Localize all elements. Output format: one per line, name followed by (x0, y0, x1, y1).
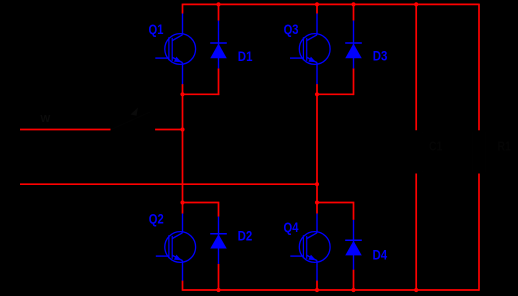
wire Q4 emitter stub (316, 281, 318, 291)
wire D3 bottom stub (353, 68, 355, 95)
transistor Q3 (290, 14, 330, 85)
wire right vertical 2 lower (478, 174, 480, 291)
junction dot Q4 collector node (315, 200, 319, 204)
wire right leg vertical (316, 94, 318, 202)
wire Q1 emitter stub (182, 84, 184, 94)
switch W lever (dark) (111, 112, 150, 130)
svg-text:D4: D4 (373, 246, 388, 262)
wire D4 top link (317, 203, 354, 220)
wire input W segment A (20, 129, 111, 131)
svg-text:W: W (40, 113, 50, 125)
wire D1 bottom stub (218, 68, 220, 95)
switch W arrowhead (dark) (131, 108, 139, 116)
wire right vertical 1 lower (415, 174, 417, 291)
transistor Q4 (290, 214, 330, 281)
wire D4 bottom stub (353, 270, 355, 290)
wire Q2 collector stub (182, 203, 184, 214)
wire D2 top link (183, 203, 219, 217)
svg-text:D3: D3 (373, 47, 388, 63)
junction dot top rail D3 (351, 2, 355, 6)
wire left midpoint link (183, 93, 220, 95)
svg-text:D2: D2 (238, 227, 253, 243)
transistor Q2 (156, 214, 196, 281)
junction dot bottom rail Q4 (315, 288, 319, 292)
junction dot Q2 collector node (180, 200, 184, 204)
svg-text:D1: D1 (238, 48, 253, 64)
wire right vertical 2 upper (478, 4, 480, 131)
wire D1 top stub (218, 4, 220, 21)
wire right vertical 1 upper (415, 4, 417, 131)
diode D4 (345, 220, 362, 270)
wire input W segment B (155, 129, 182, 131)
wire Q2 emitter stub (182, 281, 184, 291)
wire right midpoint link (317, 93, 354, 95)
junction dot top rail cap branch (414, 2, 418, 6)
capacitor C1 body (black, in gap of vertical 1) (410, 132, 423, 172)
junction dot bottom rail D2 (216, 288, 220, 292)
junction dot top rail D1 (216, 2, 220, 6)
junction dot left midpoint (180, 92, 184, 96)
junction dot input 2 (315, 182, 319, 186)
junction dot top rail Q3 (315, 2, 319, 6)
diode D3 (345, 21, 362, 69)
svg-text:Q4: Q4 (284, 220, 299, 235)
wire Q3 collector stub (316, 4, 318, 14)
diode D1 (210, 21, 227, 69)
junction dot bottom rail D4 (351, 288, 355, 292)
transistor Q1 (155, 14, 195, 85)
wire input 2 (20, 183, 317, 185)
wire bottom rail (183, 289, 480, 291)
wire D2 bottom stub (218, 264, 220, 290)
load R1 body (black, in gap of vertical 2) (473, 132, 486, 172)
svg-text:C1: C1 (429, 139, 443, 153)
junction dot bottom rail cap branch (414, 288, 418, 292)
svg-text:Q1: Q1 (149, 22, 164, 37)
svg-text:Q3: Q3 (284, 22, 299, 37)
wire Q1 collector stub (182, 4, 184, 14)
junction dot right midpoint (315, 92, 319, 96)
junction dot input W (180, 127, 184, 131)
wire D3 top stub (353, 4, 355, 21)
wire top DC rail (183, 3, 480, 5)
diode D2 (210, 217, 227, 264)
wire Q4 collector stub (316, 203, 318, 214)
svg-text:Q2: Q2 (149, 211, 164, 226)
wire Q3 emitter stub (316, 84, 318, 94)
wire left leg vertical (182, 94, 184, 202)
svg-text:R1: R1 (498, 139, 512, 153)
